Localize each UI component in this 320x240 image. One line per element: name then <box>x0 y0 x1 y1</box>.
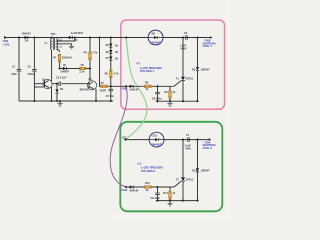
svg-text:100n: 100n <box>11 73 17 76</box>
svg-text:2.2k: 2.2k <box>79 70 84 73</box>
svg-text:R10: R10 <box>145 182 150 185</box>
svg-text:COIL 1: COIL 1 <box>203 44 213 48</box>
svg-text:1N4007: 1N4007 <box>150 41 161 45</box>
svg-text:BD243C: BD243C <box>34 86 44 89</box>
svg-text:D3: D3 <box>74 38 78 42</box>
svg-text:COIL 2: COIL 2 <box>203 146 213 150</box>
svg-text:470uF: 470uF <box>27 73 35 76</box>
svg-text:1N: 1N <box>115 51 118 54</box>
svg-text:1N4148: 1N4148 <box>129 89 138 92</box>
svg-text:D10: D10 <box>192 170 197 173</box>
svg-text:4.7k: 4.7k <box>114 72 119 75</box>
svg-text:TR1: TR1 <box>51 32 57 36</box>
svg-text:D11: D11 <box>153 135 158 138</box>
svg-text:1N: 1N <box>115 58 118 61</box>
svg-text:CN2: CN2 <box>122 87 128 91</box>
svg-text:1N4007: 1N4007 <box>151 143 162 147</box>
svg-text:400V: 400V <box>181 48 187 51</box>
svg-text:1N4007: 1N4007 <box>201 68 210 71</box>
svg-text:C5 10n: C5 10n <box>106 95 115 98</box>
svg-text:1N: 1N <box>115 45 118 48</box>
svg-text:400V: 400V <box>185 148 191 151</box>
svg-text:1N4007: 1N4007 <box>201 170 210 173</box>
svg-text:D12: D12 <box>122 136 127 139</box>
svg-text:C3 2.2uF: C3 2.2uF <box>56 77 67 80</box>
svg-text:PULSES 2: PULSES 2 <box>141 169 155 173</box>
svg-text:1N4007: 1N4007 <box>22 32 32 36</box>
svg-text:L2: L2 <box>59 38 63 42</box>
svg-text:CN2: CN2 <box>121 188 127 192</box>
svg-text:1N4007: 1N4007 <box>60 70 69 73</box>
svg-text:BT151: BT151 <box>186 78 194 81</box>
svg-text:L3: L3 <box>59 45 63 49</box>
svg-text:C8 100n: C8 100n <box>152 97 162 100</box>
svg-text:PULSES 1: PULSES 1 <box>140 69 154 73</box>
svg-text:C9 100n: C9 100n <box>151 197 161 200</box>
svg-text:4x1N4007: 4x1N4007 <box>71 31 84 35</box>
svg-text:1N4148: 1N4148 <box>129 189 138 192</box>
svg-text:4.7k: 4.7k <box>92 51 97 54</box>
svg-text:D4: D4 <box>25 39 29 43</box>
svg-text:(+): (+) <box>136 61 140 65</box>
svg-text:100R: 100R <box>100 89 106 92</box>
svg-text:L1: L1 <box>44 41 48 45</box>
svg-text:100k/1W: 100k/1W <box>62 56 73 59</box>
svg-text:+13V: +13V <box>3 42 10 46</box>
svg-text:R11: R11 <box>163 192 168 195</box>
svg-text:BT151: BT151 <box>186 178 194 181</box>
svg-text:BD243C: BD243C <box>80 89 90 92</box>
